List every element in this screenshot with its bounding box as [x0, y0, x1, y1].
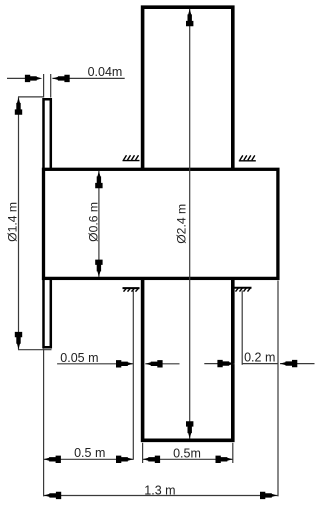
dimension 0.5m bottom-right: right arrow — [216, 456, 233, 463]
dimension 1.3 m: right arrow — [260, 492, 277, 499]
dimension 0.04m: lines and extensions — [7, 74, 125, 98]
dimension &#216;1.4 m: down arrow — [15, 332, 22, 349]
dimension 0.04m: left arrow — [25, 75, 42, 82]
svg-text:0.5 m: 0.5 m — [74, 446, 105, 460]
dimension 0.2 m: right arrow (outside, pointing left) — [280, 360, 297, 367]
bottom disc half (lower column outline) — [143, 277, 233, 440]
hatch support symbol bottom-right — [235, 288, 252, 292]
svg-text:0.2 m: 0.2 m — [244, 350, 275, 364]
dimension 0.5m bottom-right: line and extensions — [143, 443, 233, 463]
svg-text:0.5m: 0.5m — [173, 446, 201, 460]
dimension 0.5 m bottom-left: line and left extension — [44, 349, 134, 497]
dimension 0.2 m: lines — [204, 363, 314, 365]
dimension &#216;0.6 m: down arrow — [95, 260, 102, 277]
central shaft (flange rectangle) — [44, 169, 278, 278]
dimension &#216;2.4 m: up arrow — [186, 9, 193, 26]
svg-text:0.04m: 0.04m — [88, 65, 123, 79]
left support extension line (from bottom-left hatch down to 0.5m dim) — [132, 291, 134, 460]
thin end plate (0.04m disc), lower part — [44, 277, 51, 347]
dimension 0.5 m bottom-left: right arrow — [116, 456, 133, 463]
dimension &#216;1.4 m: line and extensions — [18, 97, 52, 350]
dimension 0.05 m: lines — [57, 363, 179, 365]
dimension 0.5m bottom-right: left arrow — [143, 456, 160, 463]
dimension 0.05 m: right arrow (outside, pointing left) — [145, 360, 162, 367]
dimension &#216;1.4 m: up arrow — [15, 97, 22, 114]
dimension &#216;0.6 m: line — [98, 171, 100, 277]
svg-text:Ø1.4 m: Ø1.4 m — [5, 202, 19, 242]
thin end plate (0.04m disc), upper part — [44, 99, 51, 170]
dimension 0.05 m: left arrow (outside, pointing right) — [116, 360, 133, 367]
svg-text:0.05 m: 0.05 m — [60, 351, 98, 365]
hatch support symbol top-right — [239, 155, 256, 160]
right support extension line (from bottom-right hatch down to 0.2m dim) — [241, 291, 243, 365]
dimension &#216;0.6 m: up arrow — [95, 171, 102, 188]
hatch support symbol bottom-left — [123, 288, 140, 292]
svg-text:Ø0.6 m: Ø0.6 m — [86, 202, 100, 242]
dimension 0.2 m: left arrow (outside, pointing right) — [217, 360, 234, 367]
dimension &#216;2.4 m: down arrow — [186, 421, 193, 438]
dimension 1.3 m: left arrow — [44, 492, 61, 499]
dimension 1.3 m: line and right extension — [44, 281, 278, 497]
dimension &#216;2.4 m: line — [189, 9, 191, 439]
top disc half (upper column outline) — [143, 7, 233, 170]
dimension 0.04m: right arrow — [52, 75, 69, 82]
svg-text:Ø2.4 m: Ø2.4 m — [175, 204, 189, 244]
svg-text:1.3 m: 1.3 m — [144, 484, 175, 498]
hatch support symbol top-left — [123, 155, 140, 160]
dimension 0.5 m bottom-left: left arrow — [44, 456, 61, 463]
